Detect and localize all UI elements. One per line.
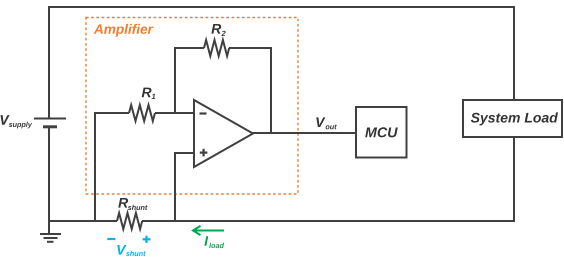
wire top rail [48, 6, 514, 8]
wire battery negative down to ground node [48, 128, 50, 222]
wire left sense tap (shunt low side up to R1) [94, 113, 96, 222]
op-amp non-inverting input marker [200, 149, 208, 157]
label V_shunt polarity minus [107, 238, 115, 240]
wire System Load bottom drop [513, 137, 515, 222]
wire feedback tap up from inverting input [174, 48, 176, 113]
label V_shunt [117, 245, 146, 256]
wire battery positive up to top rail [48, 7, 50, 118]
label MCU [365, 127, 398, 137]
label R2 [211, 24, 225, 36]
wire R2 row left [174, 47, 204, 49]
label System Load [471, 112, 558, 125]
battery V_supply [34, 119, 66, 127]
label R1 [142, 88, 156, 99]
bottom rail left segment (ground side of shunt) [49, 220, 117, 222]
wire non-inverting input from shunt high side [175, 153, 194, 222]
bottom rail right segment (load side of shunt) [142, 220, 514, 222]
resistor R2 [204, 40, 229, 56]
label I_load [204, 236, 224, 248]
resistor R_shunt [117, 213, 142, 229]
wire R2 row right [229, 47, 272, 49]
op-amp U1 [194, 100, 253, 167]
wire inverting input row left [94, 112, 129, 114]
current arrow I_load [193, 226, 224, 235]
wire inverting input row right [155, 112, 194, 114]
amplifier dashed box [86, 18, 298, 195]
wire right drop to System Load [513, 6, 515, 100]
op-amp inverting input marker [200, 112, 207, 114]
wire feedback down to op-amp output [270, 48, 272, 133]
label V_out [316, 117, 337, 129]
label V_shunt polarity plus [143, 236, 151, 243]
wire op-amp output to MCU [252, 132, 356, 134]
label R_shunt [118, 198, 147, 210]
label Amplifier [94, 24, 154, 37]
System Load box [463, 100, 562, 137]
resistor R1 [129, 105, 155, 121]
MCU box [356, 107, 407, 158]
ground [40, 221, 61, 242]
label V_supply [1, 115, 33, 128]
